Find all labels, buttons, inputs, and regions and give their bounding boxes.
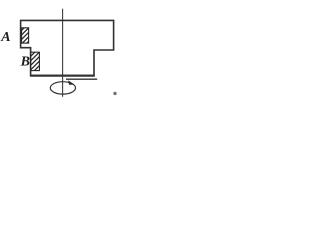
arrowhead on rotation ellipse (68, 80, 74, 85)
bottom edge (thicker) (30, 75, 95, 77)
svg-text:B: B (20, 55, 30, 70)
background (0, 0, 118, 103)
small gray print fragment at lower right (113, 92, 116, 96)
rotation ellipse around axis (50, 82, 75, 94)
leader line of rotation arrow (66, 78, 97, 80)
svg-text:A: A (0, 30, 10, 45)
hatched rectangle A (section) (18, 18, 34, 52)
hatched rectangle B (section) (27, 42, 45, 78)
centerline (axis of revolution) (62, 9, 64, 97)
outline of stepped revolved part (21, 20, 114, 75)
